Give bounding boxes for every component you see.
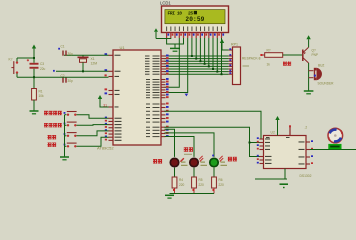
resistor R8 (transistor base) <box>260 53 282 58</box>
svg-text:SOUNDER: SOUNDER <box>318 82 335 86</box>
wire reset node to U1 RST <box>17 76 109 78</box>
svg-text:R?: R? <box>267 49 271 53</box>
ground (buzzer) <box>304 91 314 94</box>
LCD pin-name vertical tick text row <box>166 27 222 32</box>
crystal X1 <box>78 57 89 63</box>
U1 right pin numbers <box>166 55 169 138</box>
svg-text:220: 220 <box>199 183 205 187</box>
bus wire P0.4 <box>165 65 229 67</box>
wire SW4 to U1 P1.6 <box>77 137 109 146</box>
ground (LED rail) <box>165 195 174 198</box>
svg-text:1k: 1k <box>267 63 271 67</box>
svg-text:BUZ: BUZ <box>318 64 324 68</box>
ground (button rail) <box>60 157 69 160</box>
wire LCD RS to MCU P2.2 <box>165 38 180 87</box>
wire LCD D6 drop <box>216 38 218 72</box>
red label 整点 (LED D2) <box>184 147 193 152</box>
C2 value label <box>61 74 74 83</box>
svg-text:R6: R6 <box>219 178 223 182</box>
LCD screen <box>165 10 225 24</box>
transistor Q1 (PNP) <box>303 47 309 63</box>
svg-text:X1: X1 <box>91 57 95 61</box>
red label 闹钟 (LED D3) <box>228 157 237 162</box>
capacitor C1 <box>58 48 67 56</box>
resistor R1 (reset pulldown) <box>32 77 37 110</box>
junction dots D0-D7 on P0 bus <box>191 55 223 75</box>
wire LCD D2 drop <box>199 38 201 61</box>
power terminal (Q1 emitter) <box>306 35 310 47</box>
red label 停止 (button 4) <box>48 143 57 147</box>
microcontroller U1 body <box>113 50 161 145</box>
power terminal (VDD of LCD) <box>154 28 158 38</box>
svg-text:C3: C3 <box>40 62 44 66</box>
LCD pin stubs (pins 1-14) <box>167 33 222 39</box>
svg-text:30p: 30p <box>68 52 74 56</box>
U1 right pin stubs <box>161 56 166 137</box>
wire LED ground rail <box>170 193 215 195</box>
wire LCD VSS/VEE/RW to ground <box>167 38 184 48</box>
LED D3 (alarm, green) <box>210 156 223 167</box>
wire U1 P3.0 to DS1302 pin1 <box>165 111 262 139</box>
LED D3 pin number dot <box>212 155 214 157</box>
push button SW1 (time set) <box>64 112 77 116</box>
wire SW3 to U1 P1.4 <box>77 131 109 136</box>
svg-text:LCD1: LCD1 <box>160 1 171 6</box>
wire LED D1 to R4 <box>174 168 176 177</box>
junction crystal/XTAL2 <box>82 70 84 72</box>
wire U1 P3.7 to LED D2 <box>165 137 195 157</box>
wire LCD D7 drop <box>221 38 223 74</box>
U2 left pin stubs <box>260 139 264 164</box>
svg-text:.2: .2 <box>305 126 308 130</box>
wire U1 P3.4 to DS1302 pin2 <box>165 127 260 156</box>
ground (reset circuit) <box>30 111 39 114</box>
U1 left pin stubs <box>109 55 114 140</box>
D3 value label <box>221 162 228 166</box>
RP1 pin numbers <box>229 48 231 74</box>
power terminal (reset circuit VCC) <box>32 45 36 59</box>
U1 internal pin-name text (right columns) <box>145 56 160 138</box>
wire button common rail <box>64 115 66 157</box>
R6 value label <box>219 178 225 187</box>
junction reset node <box>33 76 35 78</box>
svg-text:10k: 10k <box>39 94 45 98</box>
power terminal (RP1 common) <box>220 39 229 50</box>
BUZ1 value label <box>318 64 335 86</box>
wire SW2 to U1 P1.2 <box>77 124 109 127</box>
wire Q1 collector to buzzer and ground <box>308 63 310 91</box>
U2 pin numbers <box>257 137 313 164</box>
wire LCD D1 drop <box>195 38 197 59</box>
bus wire P0.3 <box>165 63 229 65</box>
wire XTAL2 to U1 <box>56 62 109 71</box>
red label 蜂鸣器 <box>283 62 291 66</box>
BT1 base/label (green) <box>328 144 341 149</box>
svg-text:FRI 10: FRI 10 <box>168 11 183 17</box>
bus wire P0.7 <box>165 73 229 75</box>
RP1 pin stubs <box>229 50 233 74</box>
red label 正常 (LED D1) <box>153 159 162 164</box>
wire GND horizontal run <box>255 178 287 180</box>
crystal pin X1 on U2 top <box>289 125 291 135</box>
push button SW4 (stop) <box>64 143 77 147</box>
bus wire P0.6 <box>165 71 229 73</box>
C1 value label <box>61 45 74 56</box>
wire R8 to Q1 base <box>283 54 302 56</box>
wire LCD D0 drop <box>191 38 193 56</box>
svg-text:PNP: PNP <box>312 53 319 57</box>
svg-text:RP1: RP1 <box>231 43 238 47</box>
push button SW2 (time +) <box>64 122 77 126</box>
svg-text:220: 220 <box>179 183 185 187</box>
node marker (blue) near E wire <box>185 94 189 97</box>
R4 value label <box>179 178 185 187</box>
D1 value label <box>181 162 188 166</box>
wire U1 P3.5 to LED D1 <box>165 129 175 157</box>
svg-text:220: 220 <box>219 183 225 187</box>
wire LED D3 to R6 <box>213 168 215 177</box>
ground (U2) <box>280 184 289 188</box>
buzzer BUZ1 (sounder) <box>309 68 322 80</box>
svg-text:30p: 30p <box>68 79 74 83</box>
capacitor C2 <box>53 70 67 83</box>
U1 internal pin-name text (left column) <box>115 55 122 141</box>
svg-text:R1: R1 <box>39 90 43 94</box>
wire U2 VCC1 to backup battery <box>310 149 356 151</box>
Q1 reference label <box>312 49 319 58</box>
red label 时间设置 (button 2) <box>44 123 62 127</box>
reset button K1 <box>11 58 18 77</box>
red label 闹钟 (button 3) <box>48 135 57 139</box>
R5 value label <box>199 178 205 187</box>
power terminal (U2 VCC2) <box>275 116 279 136</box>
wire LCD D5 drop <box>212 38 214 69</box>
olive note under label <box>184 154 192 155</box>
svg-text:U2: U2 <box>271 131 275 135</box>
svg-text:R5: R5 <box>199 178 203 182</box>
wire XTAL1 to U1 <box>64 55 109 56</box>
wire SW1 to U1 P1.0 <box>77 115 109 119</box>
D2 value label <box>201 162 208 166</box>
wire LCD D3 drop <box>204 38 206 64</box>
svg-text:DS1302: DS1302 <box>300 174 312 178</box>
LCD display LCD1 body <box>162 6 229 33</box>
svg-text:R4: R4 <box>179 178 183 182</box>
bus wire P0.5 <box>165 68 229 70</box>
wire LED D2 to R5 <box>193 168 195 177</box>
wire U1 P3.6 to LED D3 <box>165 133 215 157</box>
R1 value label <box>39 90 45 99</box>
U2 internal pin-name text <box>265 137 305 165</box>
svg-text:22u: 22u <box>40 67 46 71</box>
LED D2 (hourly chime, red) <box>190 156 203 167</box>
RTC U2 DS1302 body <box>264 136 307 169</box>
resistor R6 <box>212 177 217 194</box>
backup battery BT1 (coin cell icon) <box>328 128 343 143</box>
junction at VCC node <box>33 57 35 59</box>
power terminal (EA pin of U1) <box>98 95 109 107</box>
svg-text:U1: U1 <box>120 45 126 50</box>
svg-text:20:59: 20:59 <box>185 16 204 23</box>
svg-text:C1: C1 <box>61 45 65 49</box>
red label 时间调整 (button 1) <box>44 111 62 115</box>
LCD pin numbers <box>168 34 225 36</box>
U2 right pin stubs <box>306 142 310 164</box>
svg-text:RESPACK-8: RESPACK-8 <box>242 57 261 61</box>
wire LCD E to MCU P2.4 <box>165 38 188 93</box>
svg-text:K?: K? <box>9 58 13 62</box>
U1 left pin numbers <box>103 53 107 140</box>
C3 value label <box>40 62 46 71</box>
bus wire P0.2 <box>165 60 229 62</box>
electrolytic capacitor C3 <box>27 58 39 77</box>
bus wire P0.1 <box>165 58 229 60</box>
svg-text:Q?: Q? <box>312 49 316 53</box>
wire U2 GND pin down <box>284 169 286 180</box>
svg-text:12M: 12M <box>91 61 98 65</box>
wire LCD D4 drop <box>208 38 210 66</box>
wire power to LCD VDD <box>156 37 171 40</box>
push button SW3 (alarm) <box>64 133 77 137</box>
bus wire P0.0 <box>165 55 229 57</box>
LED D1 (normal, red) <box>170 158 184 167</box>
resistor R5 <box>192 177 197 194</box>
wire VCC node to reset button <box>17 57 34 59</box>
ground (LCD) <box>170 48 180 51</box>
X1 value label <box>91 57 98 66</box>
resistor pack RP1 <box>233 47 241 85</box>
resistor R4 <box>172 177 177 194</box>
